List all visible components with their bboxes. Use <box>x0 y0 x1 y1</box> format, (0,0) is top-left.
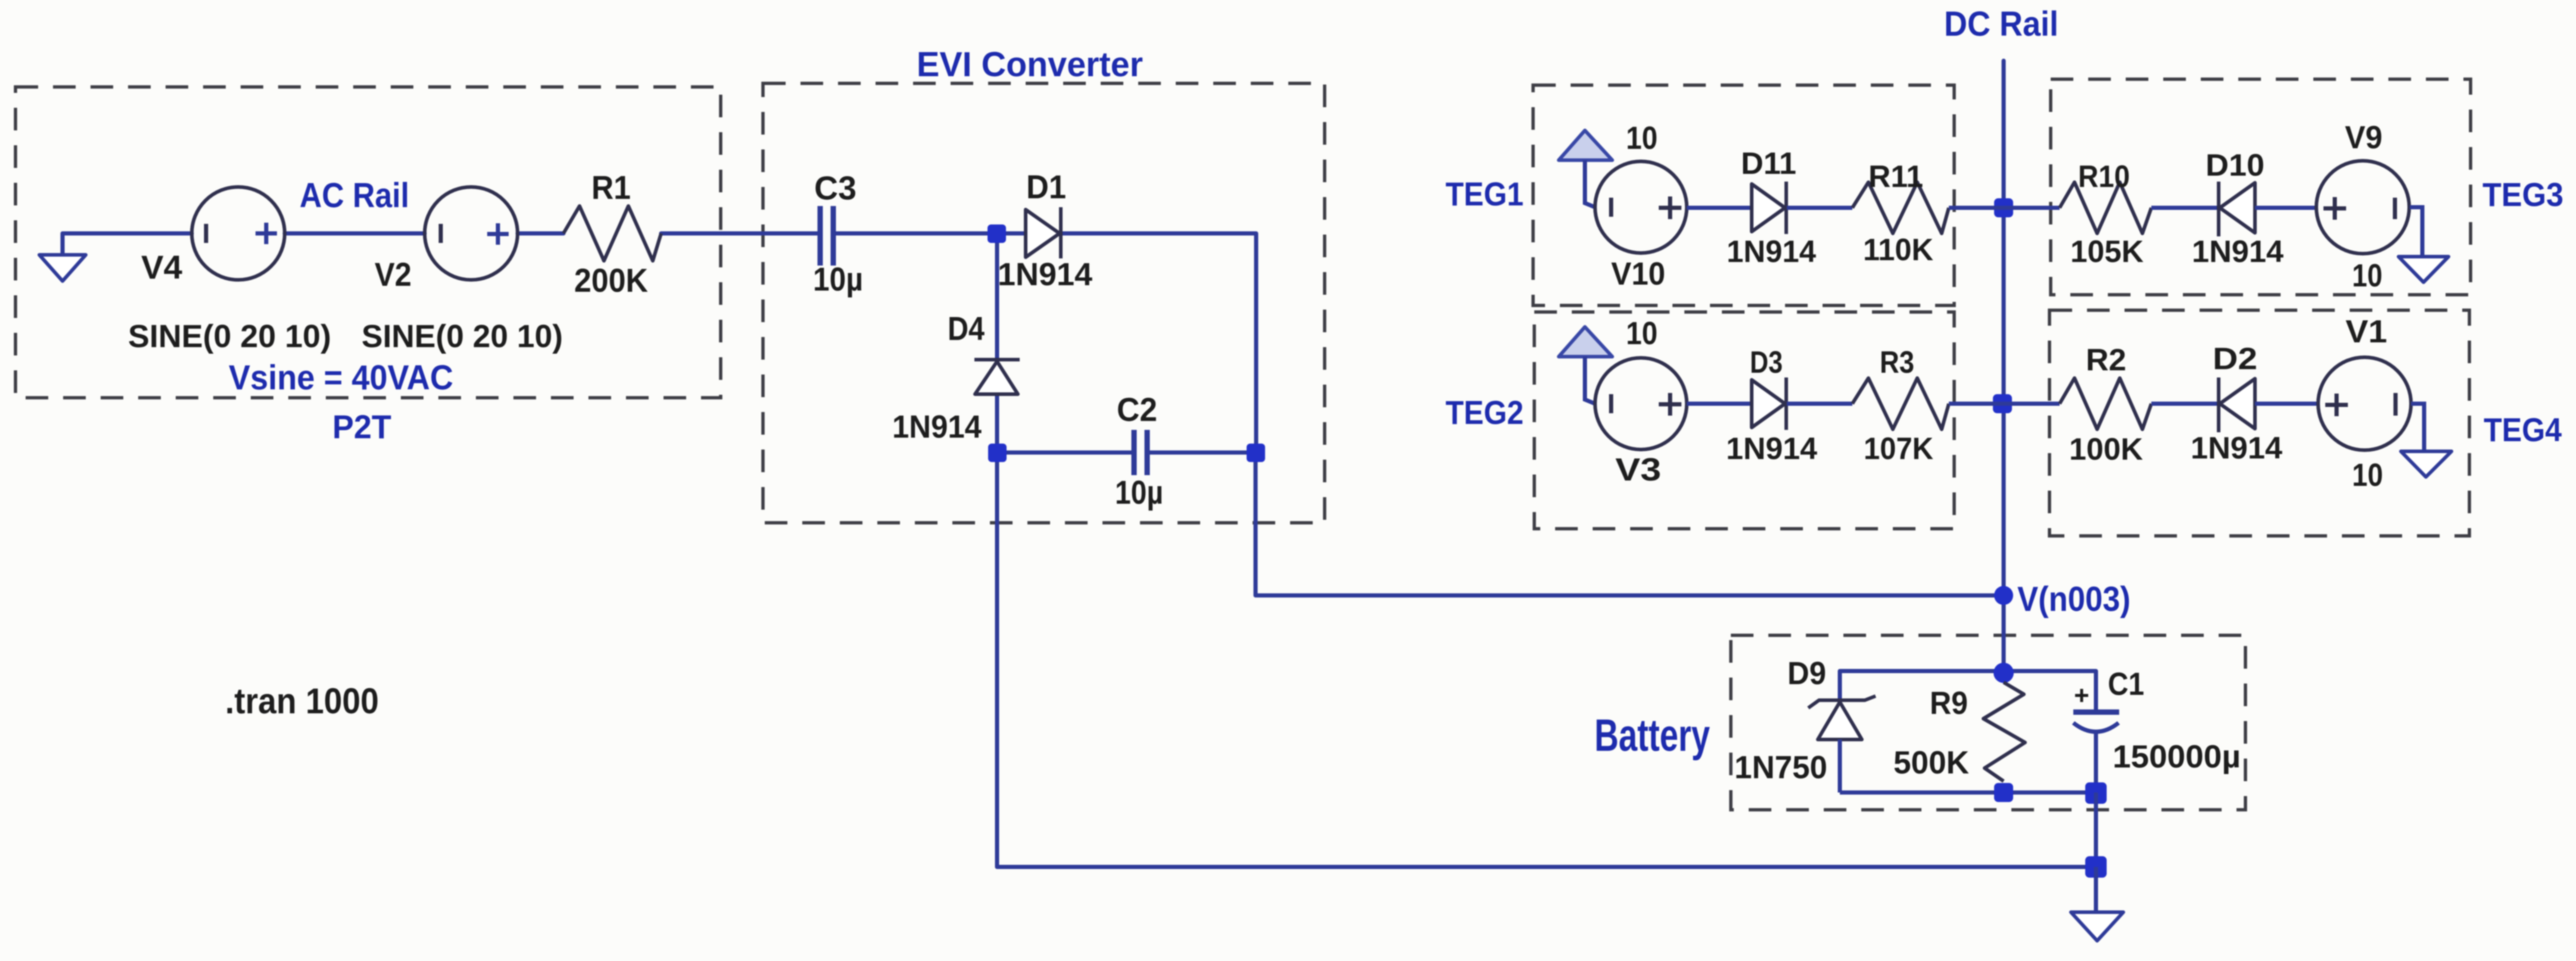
svg-text:100K: 100K <box>2069 432 2143 467</box>
polarity mark of C1 <box>2075 689 2088 702</box>
TEG3 enclosure box <box>2051 79 2471 295</box>
wire DC Rail vertical <box>2002 61 2006 673</box>
svg-text:10µ: 10µ <box>813 260 863 298</box>
ground (bottom) <box>2071 912 2123 941</box>
svg-text:500K: 500K <box>1893 745 1969 781</box>
svg-text:EVI Converter: EVI Converter <box>917 45 1143 84</box>
voltage source V2 <box>425 187 518 280</box>
diode D3 <box>1752 377 1786 430</box>
svg-text:TEG3: TEG3 <box>2482 176 2563 213</box>
node C junction <box>1247 444 1265 462</box>
svg-text:TEG1: TEG1 <box>1446 175 1524 213</box>
svg-text:Battery: Battery <box>1594 710 1710 761</box>
svg-text:SINE(0 20 10): SINE(0 20 10) <box>362 319 563 354</box>
svg-text:V1: V1 <box>2346 314 2387 350</box>
node battery top junction <box>1993 663 2014 683</box>
svg-text:R2: R2 <box>2086 343 2126 377</box>
Battery enclosure box <box>1731 635 2245 810</box>
svg-text:D9: D9 <box>1787 656 1826 691</box>
svg-text:DC Rail: DC Rail <box>1944 5 2058 43</box>
resistor R10 <box>2060 182 2151 233</box>
svg-text:C1: C1 <box>2108 666 2144 702</box>
wire R1 to C3 <box>661 232 820 236</box>
wire V2 to R1 <box>518 232 563 236</box>
wire R10 to D10 <box>2151 206 2218 210</box>
svg-text:V9: V9 <box>2345 120 2382 155</box>
wire V1 to ground <box>2411 404 2424 451</box>
svg-text:R11: R11 <box>1868 160 1923 194</box>
svg-text:R1: R1 <box>591 169 631 206</box>
svg-text:.tran 1000: .tran 1000 <box>225 681 379 721</box>
TEG2 enclosure box <box>1534 312 1954 529</box>
svg-text:10: 10 <box>2352 457 2383 493</box>
wire node C down and right to V(n003) node <box>1256 453 2004 595</box>
svg-text:D3: D3 <box>1750 345 1783 380</box>
svg-text:P2T: P2T <box>332 408 391 445</box>
resistor R1 <box>563 206 661 261</box>
voltage source V1 <box>2318 357 2411 450</box>
wire R3 to DC rail <box>1949 402 2002 406</box>
wire bottom node to ground <box>2094 867 2098 912</box>
capacitor C2 <box>1134 430 1147 475</box>
wire node B to C2 left plate <box>997 451 1132 455</box>
arrow symbol of V10 <box>1559 130 1612 160</box>
arrow symbol of V3 <box>1559 327 1612 357</box>
zener diode D9 <box>1808 696 1876 740</box>
svg-text:R9: R9 <box>1930 685 1968 721</box>
node B junction <box>988 444 1007 462</box>
resistor R2 <box>2060 378 2151 429</box>
wire V3 to D3 <box>1687 402 1752 406</box>
wire D2 to V1 <box>2255 402 2318 406</box>
svg-text:10: 10 <box>2352 258 2382 294</box>
wire node B down and right to bottom ground rail <box>997 453 2096 867</box>
svg-text:1N914: 1N914 <box>1727 235 1816 269</box>
wire V9 to ground <box>2410 207 2422 257</box>
svg-text:D1: D1 <box>1026 168 1066 205</box>
svg-text:D2: D2 <box>2213 342 2257 376</box>
svg-text:105K: 105K <box>2070 235 2144 269</box>
voltage source V10 <box>1595 161 1687 253</box>
svg-text:D4: D4 <box>948 310 985 347</box>
svg-text:1N914: 1N914 <box>2191 431 2282 466</box>
svg-text:110K: 110K <box>1863 233 1933 267</box>
svg-text:D11: D11 <box>1741 146 1796 181</box>
svg-text:200K: 200K <box>574 261 648 299</box>
wire DC rail to R2 <box>2002 402 2060 406</box>
svg-text:TEG4: TEG4 <box>2484 411 2562 448</box>
svg-text:C3: C3 <box>814 169 856 207</box>
ground (TEG4) <box>2401 451 2452 477</box>
node A junction <box>988 224 1006 243</box>
TEG4 enclosure box <box>2049 310 2469 536</box>
TEG1 enclosure box <box>1533 85 1954 305</box>
resistor R3 <box>1852 378 1949 429</box>
svg-text:10: 10 <box>1626 316 1658 351</box>
svg-text:V2: V2 <box>375 255 412 293</box>
wire ground to V4 <box>63 233 192 255</box>
svg-text:C2: C2 <box>1117 391 1157 428</box>
diode D2 <box>2219 377 2255 432</box>
svg-text:107K: 107K <box>1864 432 1933 466</box>
svg-text:1N914: 1N914 <box>2192 235 2284 269</box>
svg-text:SINE(0 20 10): SINE(0 20 10) <box>128 319 331 354</box>
svg-text:10µ: 10µ <box>1115 473 1163 511</box>
ground (TEG3) <box>2399 257 2449 282</box>
wire arrow stem to V3 <box>1585 357 1595 404</box>
wire D11 to R11 <box>1787 206 1852 210</box>
EVI Converter enclosure box <box>763 83 1325 523</box>
wire C2 right plate to node C <box>1147 451 1256 455</box>
node DC Rail / TEG row1 junction <box>1994 198 2013 217</box>
diode D10 <box>2219 182 2255 236</box>
svg-text:1N914: 1N914 <box>998 257 1092 292</box>
wire R2 to D2 <box>2151 402 2218 406</box>
svg-text:V3: V3 <box>1615 452 1661 488</box>
svg-text:D10: D10 <box>2206 148 2264 183</box>
wire node A to D1 anode <box>996 232 1026 236</box>
diode D1 <box>1026 207 1061 258</box>
svg-text:R10: R10 <box>2078 160 2130 194</box>
voltage source V9 <box>2316 161 2409 254</box>
svg-text:TEG2: TEG2 <box>1446 394 1524 431</box>
wire D9 anode to battery bottom rail <box>1838 740 1842 792</box>
diode D4 <box>974 360 1020 394</box>
resistor R9 <box>1983 682 2025 781</box>
wire node A down to D4 cathode <box>995 233 999 360</box>
wire R11 to DC rail <box>1949 206 2004 210</box>
svg-text:R3: R3 <box>1880 345 1914 380</box>
wire D10 to V9 <box>2255 206 2317 210</box>
node DC Rail / TEG row2 junction <box>1993 394 2012 413</box>
wire D1 cathode right and down to node C <box>1060 233 1256 453</box>
wire DC rail to R10 <box>2004 206 2060 210</box>
wire C1 node down to bottom rail <box>2094 792 2098 867</box>
wire V10 to D11 <box>1687 206 1752 210</box>
ground (left, P2T) <box>39 255 86 281</box>
capacitor C1 <box>2073 712 2119 792</box>
svg-text:1N914: 1N914 <box>1726 432 1817 466</box>
diode D11 <box>1752 182 1786 234</box>
svg-text:150000µ: 150000µ <box>2113 739 2241 775</box>
node R9 bottom junction <box>1994 783 2013 802</box>
svg-text:1N914: 1N914 <box>892 409 982 445</box>
svg-text:V(n003): V(n003) <box>2017 580 2130 619</box>
svg-text:1N750: 1N750 <box>1734 750 1827 785</box>
capacitor C3 <box>820 206 833 266</box>
svg-text:10: 10 <box>1626 120 1658 156</box>
wire D3 to R3 <box>1787 402 1852 406</box>
wire D4 anode to node B <box>995 394 999 453</box>
wire V4 to V2 (AC Rail net) <box>285 232 425 236</box>
svg-text:Vsine = 40VAC: Vsine = 40VAC <box>229 358 453 397</box>
svg-text:V10: V10 <box>1611 256 1665 292</box>
node V(n003) junction <box>1994 586 2013 605</box>
P2T enclosure box <box>15 87 721 398</box>
wire battery bottom rail <box>1840 791 2096 795</box>
svg-text:AC Rail: AC Rail <box>300 176 409 215</box>
node C1 bottom junction <box>2085 782 2107 804</box>
voltage source V4 <box>192 187 285 280</box>
node bottom rail junction <box>2085 856 2107 878</box>
resistor R11 <box>1852 182 1949 233</box>
wire arrow stem to V10 <box>1585 160 1595 207</box>
wire C3 to node A <box>834 232 996 236</box>
svg-text:V4: V4 <box>141 248 182 286</box>
wire battery top rail <box>1840 671 2096 712</box>
voltage source V3 <box>1595 358 1687 450</box>
